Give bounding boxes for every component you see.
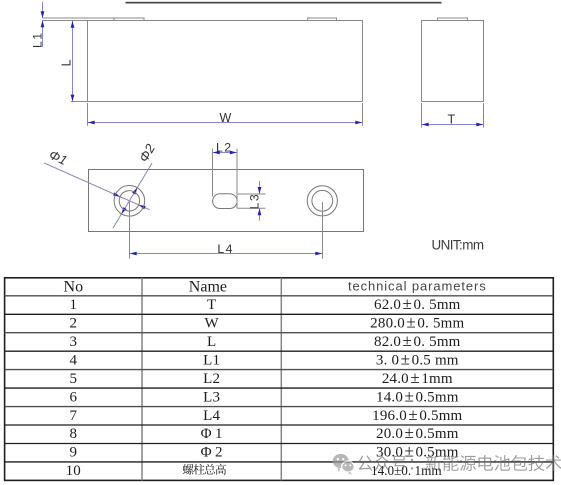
side view: terminal	[438, 18, 468, 21]
right hole inner circle	[312, 190, 333, 211]
dimension L2	[212, 149, 214, 197]
cropped top edge line	[126, 2, 442, 4]
table row lines	[5, 295, 554, 297]
dimension W	[87, 103, 89, 126]
table outer border	[5, 278, 554, 481]
right hole outer circle	[307, 186, 337, 216]
dimension L1	[42, 2, 44, 18]
dimension L	[72, 21, 74, 101]
front view: cell body	[88, 21, 363, 102]
watermark wechat logo	[333, 454, 355, 475]
center slot	[213, 194, 238, 209]
extension line: body bottom to L	[71, 101, 88, 103]
dimension L4	[129, 202, 131, 259]
front view: right terminal	[308, 18, 337, 21]
dimension L3	[238, 193, 266, 195]
leader line for dim Phi1	[44, 163, 150, 210]
front view: left terminal	[114, 18, 144, 21]
top view: plate outline	[89, 170, 364, 232]
table column divider 2	[280, 278, 282, 481]
extension line: terminal top to L1	[43, 17, 115, 19]
leader line for dim Phi2	[113, 163, 152, 228]
left hole inner circle (Phi1)	[119, 191, 139, 211]
watermark text	[357, 455, 561, 471]
table column divider 1	[141, 278, 143, 481]
dimension T	[421, 103, 423, 128]
left hole outer circle (Phi2)	[114, 186, 145, 217]
extension line: body top to L1	[43, 20, 88, 22]
row 10 name (Chinese: total stud height)	[183, 464, 227, 475]
side view: cell body	[422, 21, 484, 102]
